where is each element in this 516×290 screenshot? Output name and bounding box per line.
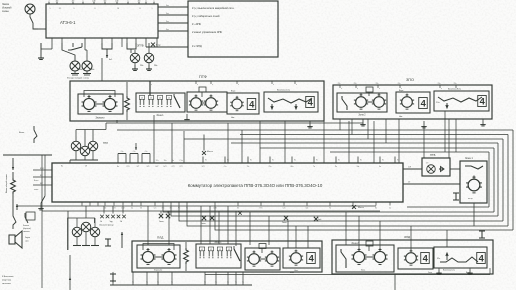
svg-text:Зеркало: Зеркало [154,270,163,272]
svg-text:2Пн: 2Пн [376,83,379,85]
svg-text:Низ: Низ [294,270,297,272]
svg-text:2Вт: 2Вт [154,65,157,67]
svg-text:(борттов): (борттов) [23,228,31,230]
svg-text:4: 4 [423,253,429,263]
svg-text:ба: ба [171,282,173,284]
svg-text:Зона 1: Зона 1 [214,242,222,244]
svg-text:2: 2 [49,1,50,3]
svg-text:Умыв: Умыв [282,222,287,224]
svg-text:Сх: Сх [389,208,391,210]
svg-text:П/Л: П/Л [180,166,183,168]
svg-text:2Пн: 2Пн [354,83,357,85]
svg-text:С/а: С/а [121,151,124,153]
svg-text:п: п [357,88,358,90]
svg-text:п: п [341,88,342,90]
svg-text:Фа: Фа [61,165,63,168]
svg-text:Зона: Зона [428,272,432,274]
svg-text:Пн: Пн [338,160,340,162]
svg-text:К к ЭПД: К к ЭПД [192,44,202,48]
svg-text:ЗЛД: ЗЛД [404,235,411,239]
svg-text:4: 4 [309,253,315,263]
svg-text:Кмб: Кмб [318,219,321,221]
svg-text:ба: ба [132,282,134,284]
svg-text:п: п [273,84,274,86]
svg-text:мотор: мотор [468,198,473,200]
svg-text:17а: 17а [156,160,159,162]
svg-text:2Вт: 2Вт [79,69,82,71]
svg-text:Х/Л: Х/Л [202,166,205,168]
svg-text:ба: ба [157,282,159,284]
svg-text:Умыв: Умыв [159,221,164,223]
svg-text:ба: ба [204,282,206,284]
svg-text:К/Л: К/Л [147,166,150,168]
svg-text:Ка: Ка [379,166,381,168]
svg-text:ПТФ: ПТФ [199,75,207,79]
svg-text:2Пн: 2Пн [454,83,457,85]
svg-text:Лв: Лв [375,208,377,210]
svg-text:Пн: Пн [272,160,274,162]
svg-text:К (+) габаритных огней: К (+) габаритных огней [192,14,220,18]
svg-text:п: п [212,84,213,86]
svg-text:Выключатель: Выключатель [443,270,455,272]
svg-text:Омывател фонар: Омывател фонар [99,224,114,227]
svg-text:Шн: Шн [306,208,309,210]
svg-text:(боковой: (боковой [2,7,12,10]
svg-text:СЛ: СЛ [426,163,428,165]
svg-text:АТЭ-6-1: АТЭ-6-1 [60,20,76,25]
svg-text:ба: ба [112,282,114,284]
svg-text:Т/а: Т/а [247,166,249,168]
svg-text:п: п [197,84,198,86]
svg-text:4: 4 [249,99,255,109]
svg-text:Кон: Кон [166,21,169,23]
svg-text:п: п [296,84,297,86]
svg-text:Выкл: Выкл [34,180,38,182]
svg-text:сигнализ: сигнализ [2,283,11,285]
svg-text:С/а: С/а [133,151,136,153]
svg-text:Лампа: Лампа [2,4,10,6]
svg-text:К1/О: К1/О [40,168,45,170]
svg-text:2Вт: 2Вт [140,65,143,67]
svg-text:Зона 2: Зона 2 [358,115,366,117]
svg-text:1: 1 [152,8,153,10]
svg-text:9: 9 [74,8,75,10]
svg-text:2 канал управления ЭПК: 2 канал управления ЭПК [192,30,223,34]
svg-text:п: п [441,88,442,90]
svg-text:2Пн: 2Пн [338,83,341,85]
svg-text:К +ЭПК: К +ЭПК [192,22,201,26]
svg-text:сигн: сигн [25,241,29,243]
svg-text:2Вт: 2Вт [72,1,75,3]
svg-text:8а: 8а [172,160,174,162]
svg-text:8: 8 [140,8,141,10]
svg-text:Кнопка: Кнопка [23,225,29,227]
svg-text:Зона 2: Зона 2 [351,243,359,245]
svg-text:8: 8 [146,1,147,3]
svg-text:Выкл: Выкл [290,272,294,274]
svg-text:2Вт: 2Вт [138,1,141,3]
svg-text:2Вт: 2Вт [91,69,94,71]
svg-text:Та: Та [313,166,315,168]
svg-text:5: 5 [128,1,129,3]
svg-text:Тв: Тв [329,208,331,210]
svg-text:4: 4 [308,97,314,107]
svg-text:Выкл: Выкл [466,272,470,274]
svg-text:Умыв: Умыв [201,223,206,225]
svg-text:Верх: Верх [231,91,235,93]
svg-text:2Пн: 2Пн [438,83,441,85]
svg-text:Пн: Пн [294,160,296,162]
svg-text:7.5а: 7.5а [179,160,182,162]
svg-text:С/н: С/н [154,208,157,210]
svg-text:ПТБ: ПТБ [430,153,436,157]
svg-text:ламп: ламп [34,189,38,191]
svg-text:16: 16 [117,8,119,10]
svg-text:6: 6 [95,8,96,10]
svg-text:Б/Л: Б/Л [164,166,167,168]
svg-text:ЗПТФ: ЗПТФ [137,45,144,48]
svg-text:п: п [238,84,239,86]
svg-text:Пн: Пн [316,160,318,162]
svg-text:С/а: С/а [145,151,148,153]
svg-text:Пн: Пн [360,160,362,162]
svg-text:4: 4 [479,253,485,263]
svg-text:п: п [151,84,152,86]
svg-text:Кон: Кон [166,13,169,15]
svg-text:Коммутатор электропакета ППВ-3: Коммутатор электропакета ППВ-376.3О4О ил… [188,183,323,188]
svg-text:ПТЛ: ПТЛ [103,142,108,145]
svg-text:2Пн: 2Пн [398,83,401,85]
svg-text:21Вт: 21Вт [115,1,119,3]
svg-text:Сй: Сй [100,220,102,223]
svg-text:ба: ба [242,282,244,284]
svg-text:Выкл общей схемы: Выкл общей схемы [5,174,8,193]
svg-text:П/а: П/а [269,166,272,168]
svg-text:Масса: Масса [207,151,214,153]
svg-text:С/Л: С/Л [172,166,175,168]
svg-text:К (+) выключателя аварийной си: К (+) выключателя аварийной сигн. [192,6,235,10]
svg-text:Кон: Кон [166,29,169,31]
svg-text:(борттов): (борттов) [2,280,11,282]
svg-text:5Вт: 5Вт [104,1,107,3]
svg-text:Кё: Кё [237,208,239,210]
svg-text:5: 5 [154,1,155,3]
svg-text:ба: ба [215,282,217,284]
svg-text:Пн: Пн [397,160,399,162]
svg-text:Зона 1: Зона 1 [156,115,164,117]
svg-text:ба: ба [146,282,148,284]
svg-text:ба: ба [235,282,237,284]
svg-text:сигнала: сигнала [23,231,30,233]
svg-text:Ъуд: Ъуд [109,221,112,223]
svg-text:Верх: Верх [399,90,403,92]
svg-text:Выключатель: Выключатель [448,89,461,91]
svg-text:п: п [379,88,380,90]
svg-text:Оа: Оа [131,208,133,210]
svg-text:Пн: Пн [227,160,229,162]
svg-text:Па: Па [335,166,337,168]
svg-text:К Выключат.: К Выключат. [2,276,14,278]
svg-text:Пн: Пн [382,160,384,162]
svg-text:2Вт: 2Вт [56,1,59,3]
svg-text:Ша: Ша [357,166,360,168]
svg-text:Низ: Низ [231,117,234,119]
svg-text:4: 4 [480,96,486,106]
svg-text:Выключатель: Выключатель [277,90,290,92]
svg-text:Выкл.: Выкл. [19,132,25,134]
svg-text:Низ: Низ [399,116,402,118]
svg-text:Фонари габарит. слева: Фонари габарит. слева [67,77,90,80]
svg-text:К/Т: К/Т [137,166,139,168]
svg-text:Масса: Масса [358,207,365,209]
svg-text:Кон: Кон [166,5,169,7]
svg-text:Пн: Пн [250,160,252,162]
svg-text:ба: ба [227,282,229,284]
svg-text:5: 5 [50,8,51,10]
svg-text:21Вт: 21Вт [92,1,96,3]
svg-text:С/н: С/н [224,166,227,168]
svg-text:Об: Об [140,208,142,210]
svg-text:Ш/а: Ш/а [291,166,294,168]
svg-text:4: 4 [421,98,427,108]
svg-text:СЛ: СЛ [85,166,87,168]
svg-text:ПЛД: ПЛД [157,236,164,240]
svg-text:ЗПО: ЗПО [406,78,414,82]
svg-text:Фн: Фн [117,165,119,168]
svg-text:Звуко: Звуко [25,237,30,239]
svg-text:12а: 12а [164,160,167,162]
svg-text:Зеркало: Зеркало [96,118,106,120]
svg-text:5: 5 [83,1,84,3]
svg-text:П/л: П/л [260,208,263,210]
svg-text:Зона 1: Зона 1 [465,157,473,160]
svg-text:схемы: схемы [2,11,9,13]
svg-text:П/З: П/З [127,166,130,168]
svg-text:Ой: Ой [120,220,122,223]
svg-text:Пн: Пн [205,160,207,162]
svg-text:С/л: С/л [283,208,286,210]
